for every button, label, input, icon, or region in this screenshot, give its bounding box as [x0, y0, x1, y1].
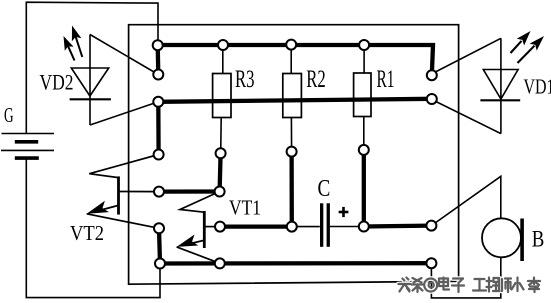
- svg-text:VT1: VT1: [229, 195, 261, 219]
- svg-text:B: B: [532, 227, 545, 253]
- svg-text:VD1: VD1: [524, 74, 551, 98]
- svg-text:R2: R2: [306, 66, 326, 93]
- svg-text:G: G: [4, 103, 14, 127]
- svg-text:R3: R3: [235, 66, 255, 93]
- svg-text:VT2: VT2: [70, 221, 104, 245]
- svg-text:R1: R1: [377, 66, 395, 93]
- svg-text:C: C: [318, 176, 331, 202]
- svg-text:VD2: VD2: [40, 69, 74, 94]
